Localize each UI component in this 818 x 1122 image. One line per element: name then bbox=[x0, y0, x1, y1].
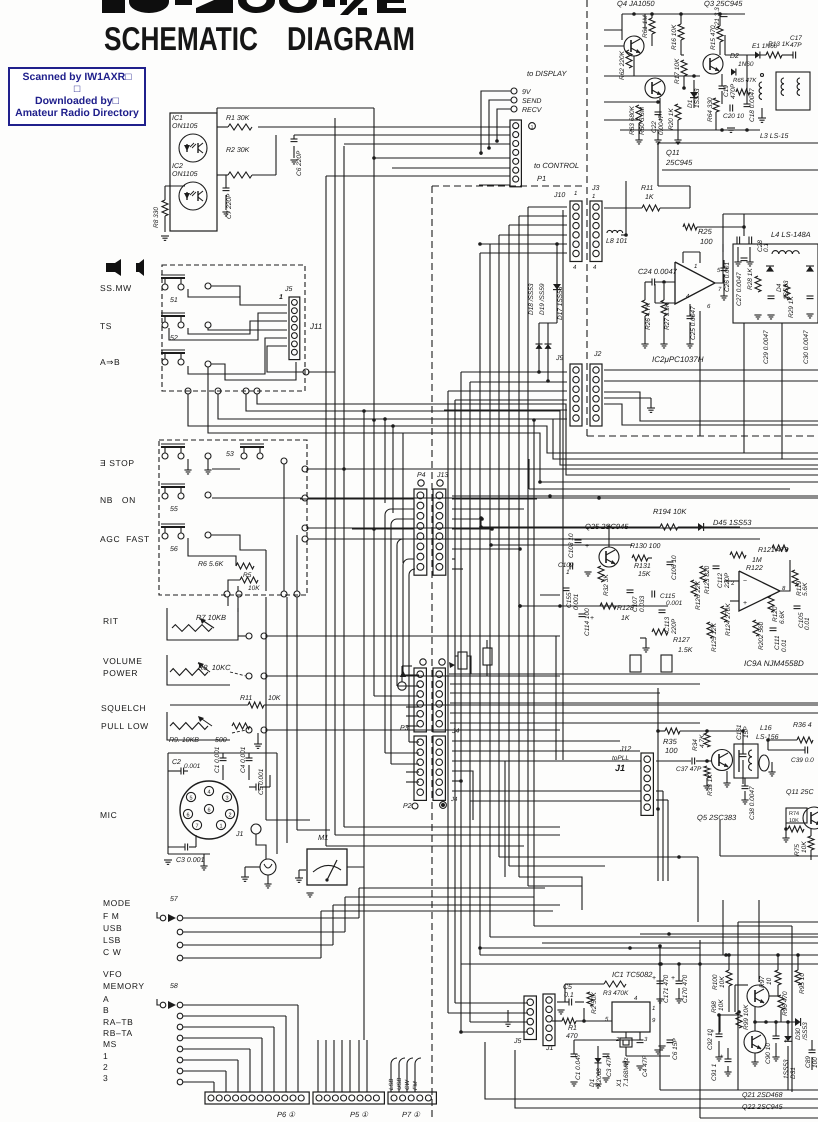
svg-text:J2: J2 bbox=[593, 351, 602, 358]
svg-text:R8 330: R8 330 bbox=[153, 207, 160, 228]
svg-text:55: 55 bbox=[170, 506, 178, 513]
svg-text:C3 47P: C3 47P bbox=[606, 1055, 613, 1077]
svg-text:L8 101: L8 101 bbox=[606, 238, 628, 245]
svg-text:RA–TB: RA–TB bbox=[103, 1017, 133, 1027]
svg-text:R32 3K: R32 3K bbox=[603, 574, 610, 596]
svg-text:2: 2 bbox=[228, 812, 231, 818]
svg-text:100: 100 bbox=[812, 1057, 818, 1068]
svg-text:R7 10KB: R7 10KB bbox=[196, 613, 226, 622]
svg-text:7.168MHz: 7.168MHz bbox=[623, 1057, 630, 1087]
svg-text:1K: 1K bbox=[645, 194, 654, 201]
svg-text:R65 47K: R65 47K bbox=[733, 77, 757, 84]
svg-text:D19 /SS59: D19 /SS59 bbox=[539, 283, 546, 315]
svg-text:R75: R75 bbox=[794, 844, 801, 856]
svg-text:P7 ①: P7 ① bbox=[402, 1110, 421, 1119]
svg-text:1: 1 bbox=[574, 190, 577, 197]
svg-text:R1 30K: R1 30K bbox=[226, 115, 250, 122]
svg-text:6.6K: 6.6K bbox=[779, 610, 786, 624]
svg-text:0.033: 0.033 bbox=[639, 595, 646, 612]
svg-text:/SS53: /SS53 bbox=[802, 1022, 809, 1041]
svg-text:P2: P2 bbox=[403, 803, 412, 810]
svg-text:C89: C89 bbox=[805, 1056, 812, 1068]
svg-text:IC1: IC1 bbox=[172, 115, 183, 122]
svg-text:51: 51 bbox=[170, 297, 178, 304]
svg-text:C7 220P: C7 220P bbox=[226, 193, 233, 219]
svg-text:R36 4: R36 4 bbox=[793, 722, 812, 729]
svg-text:0.001: 0.001 bbox=[573, 593, 580, 610]
svg-text:R64 330: R64 330 bbox=[707, 97, 714, 122]
svg-text:0.01: 0.01 bbox=[781, 639, 788, 652]
svg-text:C6 220P: C6 220P bbox=[296, 150, 303, 176]
svg-text:SEND: SEND bbox=[522, 98, 541, 105]
svg-text:10K: 10K bbox=[718, 999, 725, 1011]
svg-text:C30 0.0047: C30 0.0047 bbox=[803, 330, 810, 364]
svg-text:C4 0.001: C4 0.001 bbox=[240, 746, 247, 773]
svg-text:J13: J13 bbox=[436, 472, 448, 479]
svg-text:1N60: 1N60 bbox=[738, 61, 754, 68]
svg-text:R98: R98 bbox=[711, 1001, 718, 1013]
svg-text:J1: J1 bbox=[235, 831, 244, 838]
svg-text:D18 /SS53: D18 /SS53 bbox=[528, 283, 535, 315]
svg-text:Scanned by IW1AXR□: Scanned by IW1AXR□ bbox=[22, 71, 132, 83]
svg-text:R60 3.3M: R60 3.3M bbox=[639, 106, 646, 135]
svg-text:R121 470: R121 470 bbox=[758, 547, 788, 554]
svg-text:P6 ①: P6 ① bbox=[277, 1110, 296, 1119]
svg-text:6: 6 bbox=[207, 807, 210, 813]
svg-text:R6 5.6K: R6 5.6K bbox=[198, 561, 224, 568]
svg-text:SS.MW: SS.MW bbox=[100, 283, 132, 293]
svg-text:D30: D30 bbox=[795, 1028, 802, 1040]
svg-text:56: 56 bbox=[170, 546, 178, 553]
svg-text:VFO: VFO bbox=[103, 969, 122, 979]
svg-text:0.001: 0.001 bbox=[666, 600, 683, 607]
svg-text:P1: P1 bbox=[537, 174, 546, 183]
svg-text:L16: L16 bbox=[760, 725, 772, 732]
svg-text:C113: C113 bbox=[664, 617, 671, 632]
svg-text:1: 1 bbox=[694, 263, 697, 270]
svg-text:Ǝ STOP: Ǝ STOP bbox=[100, 458, 135, 468]
svg-text:J11: J11 bbox=[309, 322, 322, 331]
svg-text:1: 1 bbox=[652, 1005, 655, 1012]
svg-text:R194 10K: R194 10K bbox=[653, 507, 687, 516]
svg-text:C6 15P: C6 15P bbox=[672, 1038, 679, 1060]
svg-text:+: + bbox=[590, 615, 594, 622]
svg-text:C3 0.001: C3 0.001 bbox=[176, 857, 205, 864]
svg-text:C20 10: C20 10 bbox=[723, 113, 744, 120]
svg-text:1: 1 bbox=[592, 193, 595, 200]
svg-text:25C945: 25C945 bbox=[665, 158, 693, 167]
svg-text:IC2: IC2 bbox=[172, 163, 183, 170]
svg-text:VOLUME: VOLUME bbox=[103, 656, 143, 666]
svg-text:C39 0.0: C39 0.0 bbox=[791, 757, 814, 764]
svg-text:+: + bbox=[585, 543, 589, 550]
svg-text:D2: D2 bbox=[730, 53, 739, 60]
svg-text:100: 100 bbox=[665, 746, 678, 755]
svg-text:□: □ bbox=[74, 83, 81, 95]
svg-text:R13 1K: R13 1K bbox=[768, 41, 790, 48]
svg-text:A⇒B: A⇒B bbox=[100, 357, 120, 367]
svg-text:IC2μPC1037H: IC2μPC1037H bbox=[652, 355, 704, 364]
svg-text:10K: 10K bbox=[248, 585, 260, 592]
svg-text:D45 1SS53: D45 1SS53 bbox=[713, 518, 752, 527]
svg-text:C17: C17 bbox=[790, 35, 802, 42]
svg-text:C91 1: C91 1 bbox=[711, 1063, 718, 1081]
svg-text:toPLL: toPLL bbox=[612, 755, 629, 762]
svg-text:A: A bbox=[103, 994, 109, 1004]
svg-text:Q11 25C: Q11 25C bbox=[786, 789, 814, 796]
svg-text:C37 47P: C37 47P bbox=[676, 766, 702, 773]
svg-text:R74: R74 bbox=[789, 811, 799, 817]
svg-text:C27 0.0047: C27 0.0047 bbox=[736, 272, 743, 306]
svg-text:100: 100 bbox=[700, 237, 713, 246]
svg-text:J9: J9 bbox=[555, 355, 564, 362]
svg-text:Amateur Radio Directory: Amateur Radio Directory bbox=[15, 107, 139, 119]
svg-text:4.7K: 4.7K bbox=[699, 734, 706, 748]
svg-text:R120: R120 bbox=[772, 606, 779, 622]
svg-text:1: 1 bbox=[103, 1051, 108, 1061]
svg-text:C112: C112 bbox=[717, 573, 724, 588]
svg-text:4: 4 bbox=[207, 789, 210, 795]
svg-text:47P: 47P bbox=[790, 42, 802, 49]
svg-text:to DISPLAY: to DISPLAY bbox=[527, 69, 567, 78]
svg-text:TS: TS bbox=[100, 321, 112, 331]
svg-text:IC1 TC5082: IC1 TC5082 bbox=[612, 970, 653, 979]
svg-text:D4: D4 bbox=[776, 283, 783, 292]
svg-text:R124 270K: R124 270K bbox=[725, 603, 732, 636]
svg-text:J1: J1 bbox=[545, 1045, 554, 1052]
svg-text:Q5 2SC383: Q5 2SC383 bbox=[697, 813, 737, 822]
svg-text:0.0047: 0.0047 bbox=[658, 115, 665, 135]
svg-text:F M: F M bbox=[103, 911, 119, 921]
svg-text:R25: R25 bbox=[698, 227, 713, 236]
svg-text:Q21 2SD468: Q21 2SD468 bbox=[742, 1092, 783, 1099]
svg-text:+: + bbox=[720, 1054, 724, 1060]
svg-text:1SS53: 1SS53 bbox=[783, 1059, 790, 1079]
svg-text:X1: X1 bbox=[616, 1079, 623, 1088]
svg-text:J12: J12 bbox=[619, 746, 631, 753]
svg-text:R11: R11 bbox=[240, 695, 252, 702]
svg-text:J5: J5 bbox=[513, 1038, 522, 1045]
svg-text:1: 1 bbox=[531, 125, 534, 131]
svg-text:L4 LS-148A: L4 LS-148A bbox=[771, 230, 811, 239]
svg-text:470: 470 bbox=[566, 1033, 578, 1040]
svg-text:R130 100: R130 100 bbox=[630, 543, 660, 550]
svg-text:Q3 25C945: Q3 25C945 bbox=[704, 0, 743, 8]
svg-text:10K: 10K bbox=[789, 818, 799, 824]
svg-text:SCHEMATIC: SCHEMATIC bbox=[104, 20, 258, 57]
svg-text:P5 ①: P5 ① bbox=[350, 1110, 369, 1119]
svg-text:P4: P4 bbox=[417, 472, 426, 479]
svg-text:5.6K: 5.6K bbox=[802, 582, 809, 596]
svg-text:MEMORY: MEMORY bbox=[103, 981, 145, 991]
svg-text:to CONTROL: to CONTROL bbox=[534, 161, 579, 170]
svg-text:R16 10K: R16 10K bbox=[671, 24, 678, 50]
svg-text:1.5K: 1.5K bbox=[678, 647, 693, 654]
svg-text:−: − bbox=[743, 578, 747, 585]
svg-text:J1: J1 bbox=[615, 763, 625, 773]
svg-text:57: 57 bbox=[170, 896, 179, 903]
svg-text:R122: R122 bbox=[746, 565, 763, 572]
svg-text:R28 1K: R28 1K bbox=[747, 268, 754, 290]
svg-text:POWER: POWER bbox=[103, 668, 138, 678]
svg-text:1: 1 bbox=[566, 569, 570, 576]
svg-text:1M: 1M bbox=[752, 557, 762, 564]
svg-text:R5: R5 bbox=[243, 572, 252, 579]
svg-text:R35: R35 bbox=[663, 737, 678, 746]
svg-text:R127: R127 bbox=[673, 637, 691, 644]
svg-text:R3 470K: R3 470K bbox=[603, 990, 629, 997]
svg-text:1K: 1K bbox=[621, 615, 630, 622]
svg-text:D1: D1 bbox=[687, 99, 694, 108]
svg-text:0.01: 0.01 bbox=[804, 617, 811, 630]
svg-text:C1 0.047: C1 0.047 bbox=[575, 1053, 582, 1080]
svg-text:MIC: MIC bbox=[100, 810, 117, 820]
svg-text:RIT: RIT bbox=[103, 616, 119, 626]
svg-text:9V: 9V bbox=[522, 89, 532, 96]
svg-text:6: 6 bbox=[186, 812, 189, 818]
svg-text:ON1105: ON1105 bbox=[172, 123, 198, 130]
svg-text:52: 52 bbox=[170, 335, 178, 342]
svg-text:Q11: Q11 bbox=[666, 148, 680, 157]
svg-text:3: 3 bbox=[225, 795, 228, 801]
svg-text:2: 2 bbox=[103, 1062, 108, 1072]
svg-text:3: 3 bbox=[103, 1073, 108, 1083]
svg-text:B: B bbox=[103, 1005, 109, 1015]
svg-text:C25 0.0047: C25 0.0047 bbox=[690, 306, 697, 340]
svg-text:C22: C22 bbox=[651, 121, 658, 133]
svg-text:L3 LS-15: L3 LS-15 bbox=[760, 133, 789, 140]
svg-text:C W: C W bbox=[103, 947, 121, 957]
svg-text:AGC FAST: AGC FAST bbox=[100, 534, 150, 544]
svg-text:MS: MS bbox=[103, 1039, 117, 1049]
svg-text:C26 0.001: C26 0.001 bbox=[724, 262, 731, 292]
svg-text:Q22 2SC945: Q22 2SC945 bbox=[742, 1104, 783, 1111]
svg-text:R99 10K: R99 10K bbox=[743, 1004, 750, 1030]
svg-text:R17 10K: R17 10K bbox=[674, 58, 681, 84]
svg-text:J10: J10 bbox=[553, 192, 565, 199]
svg-text:10K: 10K bbox=[268, 695, 281, 702]
svg-text:C109: C109 bbox=[558, 562, 574, 569]
svg-text:M1: M1 bbox=[318, 833, 328, 842]
svg-text:1: 1 bbox=[279, 294, 283, 301]
svg-text:D31: D31 bbox=[790, 1067, 797, 1079]
svg-text:RB–TA: RB–TA bbox=[103, 1028, 133, 1038]
svg-text:C90 10: C90 10 bbox=[765, 1043, 772, 1064]
svg-text:R2 30K: R2 30K bbox=[226, 147, 250, 154]
svg-text:Downloaded by□: Downloaded by□ bbox=[35, 95, 120, 107]
svg-text:R131: R131 bbox=[634, 563, 651, 570]
svg-text:DIAGRAM: DIAGRAM bbox=[287, 20, 415, 57]
svg-text:NB ON: NB ON bbox=[100, 495, 136, 505]
svg-text:+: + bbox=[743, 600, 747, 607]
svg-text:7: 7 bbox=[195, 823, 198, 829]
svg-text:R100: R100 bbox=[712, 974, 719, 990]
svg-text:R1: R1 bbox=[568, 1025, 577, 1032]
svg-text:C24 0.0047: C24 0.0047 bbox=[638, 267, 678, 276]
svg-text:R11: R11 bbox=[641, 185, 653, 192]
svg-text:D1: D1 bbox=[589, 1078, 596, 1087]
svg-text:PULL LOW: PULL LOW bbox=[101, 721, 149, 731]
svg-text:5: 5 bbox=[189, 795, 192, 801]
svg-text:IC9A NJM4558D: IC9A NJM4558D bbox=[744, 659, 804, 668]
svg-text:0.1: 0.1 bbox=[763, 243, 770, 252]
svg-text:C106 10: C106 10 bbox=[671, 555, 678, 580]
svg-text:10: 10 bbox=[766, 977, 773, 985]
svg-text:R97: R97 bbox=[759, 976, 766, 988]
svg-text:SQUELCH: SQUELCH bbox=[101, 703, 146, 713]
svg-text:C170 470: C170 470 bbox=[682, 974, 689, 1003]
svg-text:J4: J4 bbox=[450, 796, 458, 803]
svg-text:C171 470: C171 470 bbox=[663, 974, 670, 1003]
svg-text:R34: R34 bbox=[692, 739, 699, 751]
svg-text:C5: C5 bbox=[563, 984, 572, 991]
svg-text:X2068: X2068 bbox=[596, 1068, 603, 1088]
svg-text:C29 0.0047: C29 0.0047 bbox=[763, 330, 770, 364]
svg-text:10K: 10K bbox=[801, 841, 808, 853]
svg-text:J3: J3 bbox=[591, 185, 600, 192]
svg-text:RECV: RECV bbox=[522, 107, 543, 114]
svg-text:15K: 15K bbox=[638, 571, 651, 578]
svg-text:C111: C111 bbox=[774, 635, 781, 650]
svg-text:ON1105: ON1105 bbox=[172, 171, 198, 178]
svg-text:1: 1 bbox=[219, 823, 222, 829]
svg-text:R202 560: R202 560 bbox=[758, 621, 765, 650]
svg-text:+: + bbox=[652, 975, 656, 982]
svg-text:0.001: 0.001 bbox=[184, 763, 201, 770]
svg-text:53: 53 bbox=[226, 451, 234, 458]
svg-text:C115: C115 bbox=[660, 593, 675, 600]
svg-text:+: + bbox=[671, 975, 675, 982]
svg-text:220P: 220P bbox=[671, 618, 678, 635]
svg-text:USB: USB bbox=[103, 923, 122, 933]
svg-text:+: + bbox=[711, 1029, 715, 1035]
svg-text:R20 1K: R20 1K bbox=[668, 108, 675, 130]
svg-text:LSB: LSB bbox=[103, 935, 121, 945]
svg-text:C5 0.001: C5 0.001 bbox=[258, 768, 265, 795]
svg-text:C38 0.0047: C38 0.0047 bbox=[749, 786, 756, 820]
svg-text:MODE: MODE bbox=[103, 898, 131, 908]
svg-text:C2: C2 bbox=[172, 759, 181, 766]
svg-text:C1 0.001: C1 0.001 bbox=[214, 746, 221, 773]
svg-text:Q4 JA1050: Q4 JA1050 bbox=[617, 0, 655, 8]
svg-text:J5: J5 bbox=[284, 286, 293, 293]
svg-text:58: 58 bbox=[170, 983, 178, 990]
